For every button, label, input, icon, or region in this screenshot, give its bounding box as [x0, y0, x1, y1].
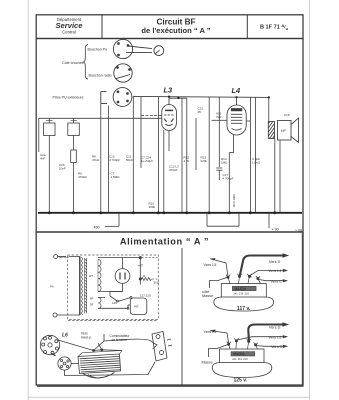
svg-text:241 216 219: 241 216 219 [232, 358, 248, 361]
svg-text:Bouchon radio: Bouchon radio [89, 73, 112, 77]
wire [181, 98, 183, 212]
svg-text:7kΩ: 7kΩ [216, 115, 222, 119]
svg-text:L3: L3 [164, 85, 174, 94]
svg-text:1MΩ: 1MΩ [221, 161, 228, 165]
outer frame [36, 15, 303, 39]
svg-text:Secteur: Secteur [59, 255, 69, 259]
svg-text:MAZDA: MAZDA [233, 352, 245, 356]
wire [100, 104, 102, 213]
tube L3 [162, 96, 177, 130]
brace [83, 45, 88, 80]
ground bus [38, 212, 302, 214]
svg-text:Ph: Ph [50, 285, 54, 289]
svg-text:1,5MΩ: 1,5MΩ [111, 175, 121, 179]
secondary taps [98, 292, 128, 309]
wire speaker [268, 97, 270, 121]
top rail [133, 96, 268, 97]
socket bouchon PU [113, 39, 152, 58]
vers L5 arrow 125 [211, 331, 229, 344]
svg-text:Vers C: Vers C [271, 279, 283, 283]
output coil block (perspective) [78, 351, 122, 379]
HT output node [123, 257, 141, 259]
socket labels [53, 47, 112, 99]
svg-text:50Ω: 50Ω [154, 281, 160, 285]
transformer core [84, 258, 86, 314]
transformer body 117 [221, 284, 266, 298]
svg-text:1,5kΩ: 1,5kΩ [252, 161, 261, 165]
wire anode L4 [233, 135, 235, 153]
svg-text:Prise PU extérieure: Prise PU extérieure [53, 95, 84, 99]
wire [108, 106, 110, 213]
svg-text:50pF: 50pF [126, 158, 133, 162]
mains terminal top [54, 255, 58, 259]
dashed separation [68, 320, 158, 322]
vers D thick wire 117 [240, 256, 284, 276]
capacitor C17 [218, 97, 220, 167]
switch interrupteur [110, 292, 147, 315]
svg-text:117 v.: 117 v. [237, 306, 251, 312]
page edge left [27, 0, 29, 400]
svg-text:470kΩ: 470kΩ [78, 175, 88, 179]
svg-text:470pF: 470pF [169, 168, 178, 172]
svg-text:+HT: +HT [138, 263, 144, 267]
svg-text:4,7k: 4,7k [184, 159, 190, 163]
below-bus wiring [105, 213, 269, 228]
vers L4 arrow 117 [250, 271, 284, 276]
terminal posts 117 [225, 274, 261, 284]
svg-text:Alimentation “ A ”: Alimentation “ A ” [120, 236, 209, 246]
svg-text:Bouchon Pu: Bouchon Pu [88, 47, 108, 51]
wire grid L4 [208, 97, 210, 213]
bell dome 125 [212, 363, 272, 378]
svg-text:MAZDA: MAZDA [235, 287, 247, 291]
svg-text:450: 450 [94, 225, 100, 229]
svg-text:25: 25 [198, 110, 202, 114]
masse wire 117 [210, 278, 227, 289]
wire [195, 118, 197, 170]
svg-text:6F: 6F [90, 297, 94, 301]
sub-rail stub [169, 97, 187, 99]
svg-text:+ 90: + 90 [272, 228, 279, 232]
header title [141, 18, 210, 36]
transformer heater secondary [98, 298, 101, 309]
wire mains bottom [57, 314, 80, 316]
svg-text:C19: C19 [284, 113, 290, 117]
header divider left [101, 15, 103, 39]
main schematic frame [36, 39, 303, 233]
svg-text:L6: L6 [62, 333, 68, 339]
svg-text:de tension: de tension [112, 338, 127, 342]
wire cathode L3 [163, 130, 165, 213]
secondary top wire [98, 258, 123, 269]
svg-text:de l'exécution “ A ”: de l'exécution “ A ” [141, 26, 210, 35]
masse wire 125 [209, 345, 228, 357]
page edge bottom [28, 396, 310, 398]
header left box text [55, 17, 83, 35]
resistor R5 [68, 118, 80, 150]
svg-text:Vers D: Vers D [269, 260, 281, 264]
bell dome 117 [214, 297, 274, 311]
terminal posts 125 [227, 338, 258, 349]
svg-text:+ 68: + 68 [295, 228, 302, 232]
transformer HT secondary [98, 260, 101, 292]
svg-text:Haut‑p.: Haut‑p. [81, 336, 92, 340]
vers L4 arrow 125 [237, 337, 284, 340]
vers D thick wire 125 [248, 325, 283, 341]
svg-text:Masse: Masse [202, 294, 213, 298]
svg-text:HP: HP [281, 129, 286, 133]
resistor R6 [71, 150, 77, 213]
svg-text:117 125: 117 125 [140, 293, 151, 297]
tube socket L6 [40, 335, 59, 355]
svg-text:4 700pF: 4 700pF [223, 177, 234, 181]
wire [255, 97, 257, 212]
supply labels [50, 255, 160, 309]
svg-text:220k: 220k [201, 159, 208, 163]
mazda plate 117 [232, 286, 256, 291]
transformer primary [79, 256, 81, 315]
svg-text:241 216 219: 241 216 219 [234, 293, 250, 296]
svg-text:Côté broches: Côté broches [62, 61, 84, 65]
svg-text:100k: 100k [149, 205, 156, 209]
mains terminal bottom [53, 313, 57, 317]
small socket [58, 357, 71, 370]
page edge right [309, 0, 311, 400]
component value labels [40, 107, 290, 210]
wire [168, 131, 170, 152]
svg-text:Vers C: Vers C [271, 345, 283, 349]
wire [157, 97, 159, 213]
svg-text:Vers L4: Vers L4 [269, 269, 282, 273]
heater line [39, 117, 162, 119]
svg-text:HT: HT [89, 274, 93, 278]
wire [279, 140, 281, 213]
socket bouchon radio [114, 64, 132, 82]
transformer body 125 [220, 349, 265, 363]
connecting wires [58, 340, 122, 351]
resistor R 50ohm [141, 277, 151, 280]
vers L5 arrow 117 [211, 259, 229, 277]
speaker [268, 118, 298, 143]
wire [186, 98, 188, 212]
svg-text:1μ+50μF: 1μ+50μF [141, 159, 153, 163]
svg-text:Vers L5: Vers L5 [204, 263, 217, 267]
svg-text:4 700pF: 4 700pF [109, 158, 120, 162]
svg-text:125: 125 [112, 301, 117, 305]
svg-text:L4: L4 [232, 86, 241, 95]
svg-text:125 v.: 125 v. [234, 378, 248, 384]
svg-text:Vers L5: Vers L5 [269, 336, 282, 340]
mazda plate 125 [231, 352, 255, 357]
svg-text:4nF: 4nF [40, 157, 45, 161]
alimentation frame [36, 232, 303, 385]
svg-text:Central: Central [62, 29, 76, 34]
wire grid L3 [140, 96, 142, 168]
svg-text:Masse: Masse [202, 361, 213, 365]
plug PU jack [154, 46, 164, 56]
wire mains top [58, 255, 80, 257]
svg-text:Vers L5: Vers L5 [204, 330, 217, 334]
svg-text:5F: 5F [90, 303, 94, 307]
enclosure dashed box [68, 255, 159, 320]
header divider right [246, 15, 248, 39]
vers C arrow 117 [259, 280, 284, 281]
svg-text:10nF: 10nF [59, 167, 66, 171]
svg-text:Vers D: Vers D [269, 326, 281, 330]
rectifier tube L5 [115, 269, 130, 292]
vers C arrow 125 [256, 345, 283, 348]
wire [246, 120, 250, 122]
chassis labels [62, 332, 130, 342]
wire [132, 96, 134, 212]
svg-text:INT: INT [134, 304, 139, 308]
tube L4 [227, 97, 246, 135]
resistor R4 [44, 118, 56, 212]
socket prise PU [101, 88, 132, 107]
wire left edge [38, 118, 40, 152]
svg-text:R16 100k: R16 100k [232, 194, 236, 207]
svg-text:47kΩ: 47kΩ [92, 158, 100, 162]
voltage selector plate [152, 332, 172, 362]
alimentation divider [181, 248, 183, 386]
